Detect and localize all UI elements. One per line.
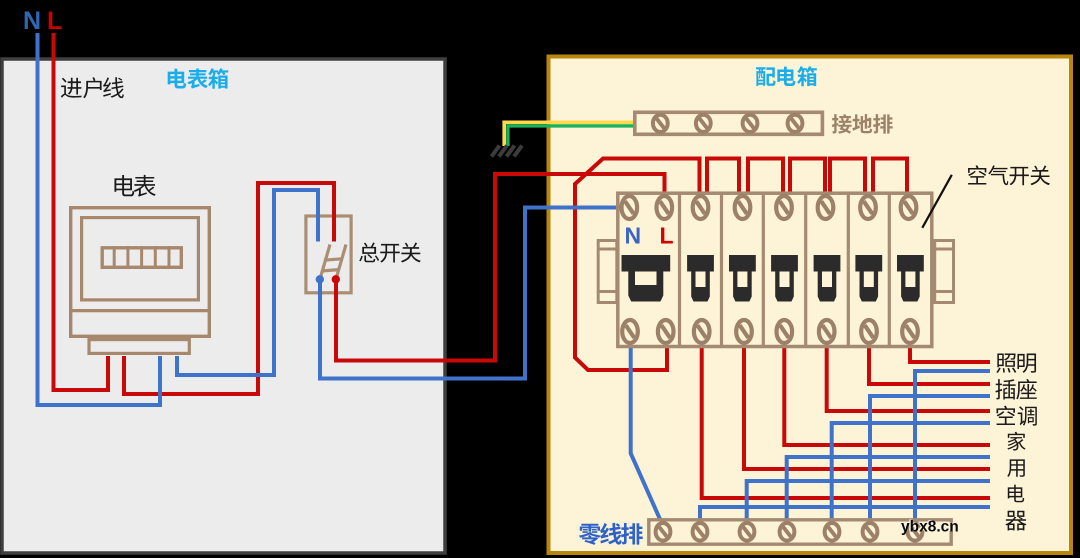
wire breaker5 live to air-conditioner circuit <box>827 345 990 411</box>
wire neutral bar to air-conditioner circuit <box>832 423 990 519</box>
wire breaker4 live to appliance circuit 1 <box>784 345 990 445</box>
wire breaker3 live to appliance circuit 2 <box>744 345 990 469</box>
label 照明 lighting circuit <box>996 353 1036 372</box>
label 电表 meter <box>114 175 155 197</box>
label 总开关 main switch <box>359 243 421 263</box>
wire meter N output to main switch <box>177 190 318 375</box>
wire L input from supply <box>54 33 109 390</box>
wire breaker2 live to appliance circuit 3 <box>702 345 990 498</box>
svg-text:L: L <box>47 7 62 35</box>
wire live bus jumper breaker3-4 <box>748 159 783 196</box>
meter box enclosure 电表箱 <box>2 59 445 553</box>
wire breaker1 N output to neutral bar <box>631 345 661 521</box>
label 空调 air conditioner circuit <box>997 406 1037 426</box>
wire earth (yellow-green) to ground bar <box>504 122 634 146</box>
label 家 household appliances line1 <box>1007 432 1025 451</box>
wire live bus jumper breaker6-7 <box>873 159 907 196</box>
breaker1 handle (2-pole main) <box>622 255 671 302</box>
wire N input from supply <box>38 33 161 405</box>
DIN rail bracket right <box>935 241 954 303</box>
main switch N terminal dot <box>316 275 324 283</box>
breaker block outline <box>618 193 932 346</box>
distribution box enclosure 配电箱 <box>549 57 1072 554</box>
DIN rail bracket left <box>598 241 617 303</box>
breaker2 handle <box>687 255 714 302</box>
ground bar 接地排 <box>635 112 823 134</box>
label 电表箱 meter box title <box>168 68 229 88</box>
breaker5 handle <box>814 255 841 302</box>
label 用 household appliances line2 <box>1007 459 1025 477</box>
breaker dividers <box>680 193 890 345</box>
main switch box outline 总开关 <box>306 216 351 293</box>
label 零线排 neutral bar <box>579 523 643 545</box>
label 空气开关 air switch <box>968 165 1050 185</box>
svg-text:ybx8.cn: ybx8.cn <box>901 519 959 536</box>
wire breaker7 live to lighting circuit <box>910 345 990 362</box>
label 进户线 service entrance wires <box>61 77 124 98</box>
breaker7 handle <box>897 255 924 302</box>
wire neutral bar to appliance circuit 2 <box>747 481 990 519</box>
svg-text:N: N <box>625 223 642 249</box>
wire breaker1 L output loop to live bus <box>575 159 700 371</box>
ground bar screws <box>653 115 803 132</box>
breaker terminal screws top row <box>622 196 917 219</box>
wire neutral bar to appliance circuit 1 <box>787 457 990 519</box>
wire live bus jumper breaker2-3 <box>707 159 739 196</box>
breaker terminal screws bottom row <box>622 320 918 343</box>
wire neutral bar to lighting circuit <box>915 371 990 519</box>
neutral bar 零线排 <box>649 520 951 544</box>
wire live bus jumper breaker5-6 <box>830 159 865 196</box>
wire live bus jumper breaker4-5 <box>790 159 825 196</box>
breaker6 handle <box>855 255 882 302</box>
wire main switch N output to breaker1 <box>320 208 617 379</box>
callout line to air switch label <box>922 175 952 228</box>
ground symbol <box>492 146 523 157</box>
label 器 household appliances line4 <box>1005 511 1026 531</box>
electric meter 电表 <box>69 208 211 354</box>
wire neutral bar to appliance circuit 3 <box>700 507 990 519</box>
main switch L terminal dot <box>332 275 340 283</box>
wire breaker6 live to socket circuit <box>869 345 990 384</box>
breaker4 handle <box>771 255 798 302</box>
main switch symbol <box>320 245 346 280</box>
svg-text:N: N <box>23 7 41 35</box>
label 接地排 ground bar <box>832 114 893 134</box>
wire meter L output to main switch <box>124 183 334 394</box>
breaker3 handle <box>729 255 756 302</box>
wire neutral bar to socket circuit <box>870 396 990 519</box>
svg-text:L: L <box>660 223 674 249</box>
label 插座 socket circuit <box>995 379 1036 399</box>
label 电 household appliances line3 <box>1008 485 1024 503</box>
neutral bar screws <box>656 523 923 541</box>
wire main switch L output to distribution box <box>336 174 665 361</box>
label 配电箱 distribution box title <box>756 66 817 86</box>
